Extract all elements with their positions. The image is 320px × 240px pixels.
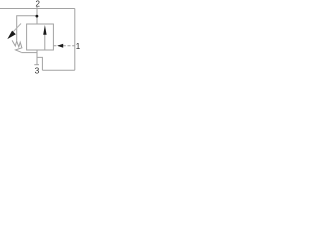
pilot arrowhead bbox=[57, 44, 63, 48]
svg-text:1: 1 bbox=[76, 42, 80, 51]
wire port-2 to valve bbox=[36, 16, 38, 24]
svg-text:2: 2 bbox=[36, 0, 41, 8]
pilot line dashed bbox=[53, 45, 74, 47]
wire bottom riser to port 3 bbox=[37, 57, 42, 70]
wire port-3 stub bbox=[36, 50, 38, 65]
svg-text:3: 3 bbox=[35, 66, 40, 76]
wire bottom net bbox=[42, 69, 74, 71]
spring bbox=[12, 40, 22, 52]
wire port-2 stub bbox=[36, 7, 38, 16]
port-3 tick bbox=[34, 64, 39, 66]
flow arrowhead bbox=[43, 25, 46, 35]
wire right side net bbox=[74, 9, 76, 71]
flow arrow shaft bbox=[44, 33, 46, 51]
adjustment arrowhead bbox=[7, 31, 15, 39]
valve body V1 bbox=[27, 24, 54, 50]
wire spring drain to port 3 bbox=[21, 52, 37, 54]
adjustment arrow shaft bbox=[13, 24, 22, 33]
wire branch to spring chamber bbox=[17, 16, 37, 41]
junction node bbox=[36, 15, 39, 18]
wire top port-2 net bbox=[0, 8, 75, 10]
